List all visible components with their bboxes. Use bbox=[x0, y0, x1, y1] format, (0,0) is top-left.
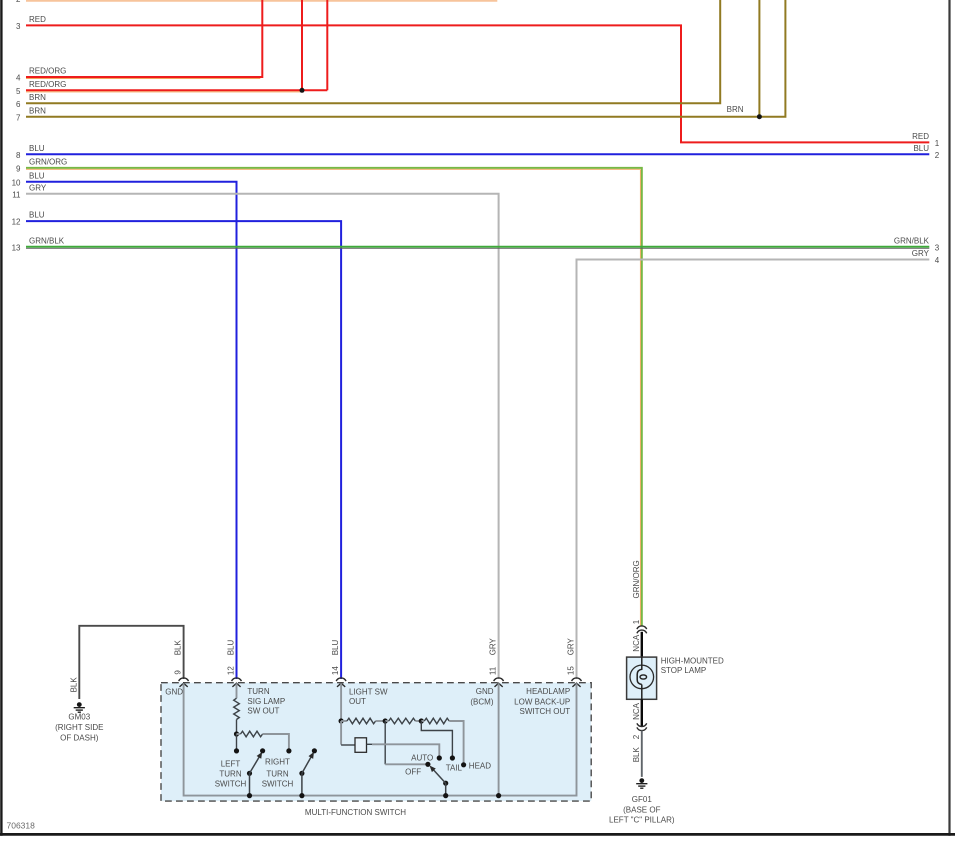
svg-text:LEFT "C" PILLAR): LEFT "C" PILLAR) bbox=[609, 816, 675, 825]
svg-text:12: 12 bbox=[227, 666, 236, 675]
light switch box bbox=[355, 738, 367, 753]
wire 8 BLU bbox=[26, 153, 929, 155]
pin 15 connector bbox=[572, 678, 582, 687]
wire BLK to GF01 bbox=[641, 730, 643, 777]
wire 6 BRN bbox=[26, 0, 720, 103]
svg-text:GF01: GF01 bbox=[632, 795, 653, 804]
stop lamp filament bbox=[637, 657, 646, 699]
svg-text:RED: RED bbox=[912, 132, 929, 141]
label HEAD bbox=[469, 761, 491, 770]
svg-text:RED/ORG: RED/ORG bbox=[29, 67, 66, 76]
svg-text:GRY: GRY bbox=[29, 183, 47, 192]
svg-text:9: 9 bbox=[174, 670, 183, 675]
svg-text:STOP LAMP: STOP LAMP bbox=[661, 666, 707, 675]
left turn switch blade bbox=[247, 748, 265, 776]
wire off blade to bus bbox=[445, 783, 447, 795]
label TURN SIG LAMP SW OUT bbox=[247, 687, 285, 715]
svg-text:SWITCH: SWITCH bbox=[262, 780, 294, 789]
svg-text:OF DASH): OF DASH) bbox=[60, 734, 99, 743]
svg-text:11: 11 bbox=[12, 190, 21, 199]
pin 12 connector bbox=[232, 678, 242, 687]
wire junction 1 to box bbox=[341, 721, 355, 745]
svg-text:BLU: BLU bbox=[29, 144, 45, 153]
wire 9 GRN/ORG bbox=[26, 168, 642, 626]
svg-text:BLU: BLU bbox=[331, 640, 340, 656]
svg-text:9: 9 bbox=[16, 165, 21, 174]
wire junction 3 to TAIL contact bbox=[421, 721, 452, 758]
svg-text:NCA: NCA bbox=[632, 702, 641, 720]
connector stop lamp pin 2 bbox=[637, 723, 647, 730]
junction dot bus left bbox=[247, 793, 252, 798]
svg-text:GRN/ORG: GRN/ORG bbox=[29, 158, 67, 167]
label RED/ORG wire 4 bbox=[16, 67, 66, 83]
label LEFT TURN SWITCH bbox=[215, 760, 247, 789]
label 15 pin 15 bbox=[567, 666, 576, 675]
stop lamp bulb circle bbox=[630, 665, 654, 689]
wire box to AUTO contact bbox=[367, 744, 440, 758]
svg-text:RED: RED bbox=[29, 15, 46, 24]
wire resistor 3 to HEAD contact bbox=[449, 721, 463, 765]
svg-text:TAIL: TAIL bbox=[446, 763, 463, 772]
wire 10 BLU bbox=[26, 182, 237, 679]
svg-text:GRY: GRY bbox=[567, 637, 576, 655]
contact dot right turn bbox=[286, 748, 291, 753]
label NCA lower bbox=[632, 702, 641, 720]
diagram number 706318 bbox=[7, 821, 36, 831]
label BLU pin 12 bbox=[227, 640, 236, 656]
junction dot light sw 1 bbox=[339, 718, 344, 723]
label GRN/ORG wire 9 bbox=[16, 158, 67, 174]
label GM03 bbox=[55, 713, 103, 743]
label GRN/BLK wire 13 bbox=[12, 236, 65, 252]
svg-text:BRN: BRN bbox=[727, 105, 744, 114]
wire 12 BLU bbox=[26, 221, 341, 679]
page bottom border bbox=[0, 833, 955, 836]
wire GRY right 4 bbox=[577, 260, 930, 680]
ground GM03 bbox=[74, 702, 85, 712]
svg-text:BLK: BLK bbox=[69, 677, 78, 693]
svg-text:15: 15 bbox=[567, 666, 576, 675]
riser RED x302 bbox=[301, 0, 303, 90]
label OFF bbox=[405, 768, 421, 777]
svg-text:SW OUT: SW OUT bbox=[247, 707, 279, 716]
svg-text:5: 5 bbox=[16, 87, 21, 96]
junction dot bus right bbox=[299, 793, 304, 798]
svg-text:12: 12 bbox=[12, 218, 21, 227]
svg-text:4: 4 bbox=[16, 74, 21, 83]
connector stop lamp pin 1 bbox=[637, 626, 647, 633]
wire 7 BRN bbox=[26, 0, 785, 117]
svg-text:GRN/BLK: GRN/BLK bbox=[894, 236, 930, 245]
page right border bbox=[948, 0, 950, 836]
svg-text:LIGHT SW: LIGHT SW bbox=[349, 688, 388, 697]
svg-text:BLU: BLU bbox=[29, 171, 45, 180]
contact dot AUTO bbox=[437, 755, 442, 760]
svg-text:HIGH-MOUNTED: HIGH-MOUNTED bbox=[661, 657, 724, 666]
label 14 pin 14 bbox=[331, 666, 340, 675]
svg-text:HEAD: HEAD bbox=[469, 761, 491, 770]
page left border bbox=[0, 0, 2, 836]
svg-text:7: 7 bbox=[16, 113, 21, 122]
wire right blade to bus bbox=[301, 773, 303, 795]
resistor light sw 3 bbox=[421, 718, 449, 724]
label LIGHT SW OUT bbox=[349, 688, 388, 707]
svg-text:TURN: TURN bbox=[266, 770, 288, 779]
svg-text:1: 1 bbox=[632, 619, 641, 624]
contact dot TAIL bbox=[450, 755, 455, 760]
svg-text:TURN: TURN bbox=[219, 770, 241, 779]
label BRN mid bbox=[727, 105, 744, 114]
svg-text:BLU: BLU bbox=[227, 640, 236, 656]
svg-text:6: 6 bbox=[16, 100, 21, 109]
svg-text:BLK: BLK bbox=[632, 747, 641, 763]
svg-text:(RIGHT SIDE: (RIGHT SIDE bbox=[55, 723, 103, 732]
svg-text:BLK: BLK bbox=[174, 640, 183, 656]
label HIGH-MOUNTED STOP LAMP bbox=[661, 657, 724, 675]
label 12 pin 12 bbox=[227, 666, 236, 675]
wire junction 2 to OFF contact bbox=[385, 721, 428, 764]
svg-text:(BASE OF: (BASE OF bbox=[623, 805, 660, 814]
wire resistor to junction bbox=[236, 720, 238, 735]
label 9 pin 9 bbox=[174, 670, 183, 675]
resistor light sw 2 bbox=[385, 718, 421, 724]
label GND (BCM) bbox=[470, 687, 493, 706]
contact dot HEAD bbox=[461, 762, 466, 767]
svg-text:3: 3 bbox=[935, 243, 940, 252]
label BLU wire right 2 bbox=[913, 144, 939, 160]
svg-text:2: 2 bbox=[16, 0, 21, 4]
junction dot light sw 2 bbox=[383, 718, 388, 723]
resistor light sw 1 bbox=[341, 718, 385, 724]
svg-text:TURN: TURN bbox=[247, 687, 269, 696]
label AUTO bbox=[411, 754, 433, 763]
wire 5 RED/ORG bbox=[26, 90, 327, 92]
svg-text:GRY: GRY bbox=[912, 249, 930, 258]
contact dot OFF bbox=[425, 762, 430, 767]
label GRY wire 11 bbox=[12, 183, 47, 199]
label 1 stop lamp bbox=[632, 619, 641, 624]
junction dot wire 7 bbox=[757, 114, 762, 119]
wire NCA pin 2 bbox=[641, 699, 643, 726]
junction dot bus off bbox=[443, 793, 448, 798]
label BLK stop lamp bbox=[632, 747, 641, 763]
resistor turn sig lamp bbox=[234, 698, 240, 719]
wire 11 GRY bbox=[26, 194, 499, 679]
label BLU wire 12 bbox=[12, 211, 45, 227]
svg-text:GRN/BLK: GRN/BLK bbox=[29, 236, 65, 245]
multi-function switch block bbox=[161, 683, 591, 801]
svg-text:706318: 706318 bbox=[7, 821, 36, 831]
junction dot wire 5 bbox=[300, 88, 305, 93]
svg-text:4: 4 bbox=[935, 256, 940, 265]
label HEADLAMP LOW BACK-UP SWITCH OUT bbox=[514, 687, 570, 716]
svg-text:13: 13 bbox=[12, 243, 21, 252]
svg-text:11: 11 bbox=[489, 666, 498, 675]
label TAIL bbox=[446, 763, 463, 772]
label BLK GM03 bbox=[69, 677, 78, 693]
label BRN wire 7 bbox=[16, 106, 46, 122]
wire pin 12 into block bbox=[236, 683, 238, 698]
stop lamp box bbox=[627, 657, 657, 699]
wire 3 RED bbox=[26, 25, 929, 142]
label BRN wire 6 bbox=[16, 93, 46, 109]
svg-text:OFF: OFF bbox=[405, 768, 421, 777]
wire pin 11 vertical bbox=[498, 683, 500, 795]
label GRN/BLK wire right 3 bbox=[894, 236, 940, 252]
label RED wire right 1 bbox=[912, 132, 940, 148]
riser BRN x759 bbox=[758, 0, 760, 117]
svg-text:BLU: BLU bbox=[29, 211, 45, 220]
svg-text:AUTO: AUTO bbox=[411, 754, 433, 763]
right turn switch blade bbox=[299, 748, 317, 776]
label BLU pin 14 bbox=[331, 640, 340, 656]
label GND pin 9 bbox=[165, 688, 183, 697]
svg-text:3: 3 bbox=[16, 22, 21, 31]
label BLU wire 10 bbox=[12, 171, 45, 187]
svg-text:LEFT: LEFT bbox=[221, 760, 241, 769]
svg-text:RED/ORG: RED/ORG bbox=[29, 80, 66, 89]
resistor turn sig horizontal bbox=[237, 731, 263, 737]
svg-text:MULTI-FUNCTION SWITCH: MULTI-FUNCTION SWITCH bbox=[305, 808, 406, 817]
pin 11 connector bbox=[494, 678, 504, 687]
label BLU wire 8 bbox=[16, 144, 45, 160]
svg-text:GRY: GRY bbox=[489, 637, 498, 655]
svg-text:1: 1 bbox=[935, 139, 940, 148]
label RED wire 3 left bbox=[16, 15, 46, 31]
ground GF01 bbox=[636, 778, 647, 788]
label GRY pin 15 bbox=[567, 637, 576, 655]
label NCA upper bbox=[632, 634, 641, 652]
wire pin 9 to bus and bus to pin 15 bbox=[184, 683, 577, 795]
label RED/ORG wire 5 bbox=[16, 80, 66, 96]
wire BLK GM03 to pin 9 bbox=[79, 626, 183, 699]
svg-text:HEADLAMP: HEADLAMP bbox=[526, 687, 570, 696]
wire 4 RED/ORG bbox=[26, 0, 262, 79]
label GRY pin 11 bbox=[489, 637, 498, 655]
svg-text:BLU: BLU bbox=[913, 144, 929, 153]
wire NCA pin 1 bbox=[641, 632, 643, 657]
svg-text:BRN: BRN bbox=[29, 106, 46, 115]
svg-text:GM03: GM03 bbox=[68, 713, 90, 722]
wire 13 GRN/BLK bbox=[26, 247, 929, 249]
svg-text:SIG LAMP: SIG LAMP bbox=[247, 697, 285, 706]
svg-text:RIGHT: RIGHT bbox=[265, 757, 290, 766]
label GRY wire right 4 bbox=[912, 249, 940, 265]
svg-text:8: 8 bbox=[16, 151, 21, 160]
svg-text:OUT: OUT bbox=[349, 697, 366, 706]
pin 9 connector bbox=[179, 678, 189, 687]
svg-text:NCA: NCA bbox=[632, 634, 641, 652]
svg-text:GND: GND bbox=[476, 687, 494, 696]
junction dot bus pin 11 bbox=[496, 793, 501, 798]
wire 2 ORG partial top bbox=[16, 0, 497, 4]
svg-text:(BCM): (BCM) bbox=[470, 697, 493, 706]
off switch blade bbox=[430, 766, 448, 785]
svg-text:10: 10 bbox=[12, 178, 21, 187]
svg-text:2: 2 bbox=[935, 151, 940, 160]
svg-text:SWITCH: SWITCH bbox=[215, 780, 247, 789]
wire left blade to bus bbox=[249, 773, 251, 795]
label GRN/ORG stop lamp bbox=[632, 560, 641, 598]
junction dot light sw 3 bbox=[419, 718, 424, 723]
svg-text:LOW BACK-UP: LOW BACK-UP bbox=[514, 697, 570, 706]
label MULTI-FUNCTION SWITCH bbox=[305, 808, 406, 817]
junction dot turn sig bbox=[234, 731, 239, 736]
svg-text:GRN/ORG: GRN/ORG bbox=[632, 560, 641, 598]
label BLK pin 9 bbox=[174, 640, 183, 656]
riser RED x327 bbox=[326, 0, 328, 90]
svg-text:14: 14 bbox=[331, 666, 340, 675]
wire pin 14 into block bbox=[340, 683, 342, 721]
contact dot left turn bbox=[234, 748, 239, 753]
svg-text:SWITCH OUT: SWITCH OUT bbox=[520, 707, 571, 716]
label 2 stop lamp bbox=[632, 734, 641, 739]
pin 14 connector bbox=[336, 678, 346, 687]
label GF01 bbox=[609, 795, 675, 825]
svg-text:GND: GND bbox=[165, 688, 183, 697]
wire junction to left contact bbox=[236, 734, 238, 751]
wire resistor to right contact bbox=[263, 734, 289, 751]
svg-text:2: 2 bbox=[632, 734, 641, 739]
label RIGHT TURN SWITCH bbox=[262, 757, 294, 788]
label 11 pin 11 bbox=[489, 666, 498, 675]
svg-text:BRN: BRN bbox=[29, 93, 46, 102]
